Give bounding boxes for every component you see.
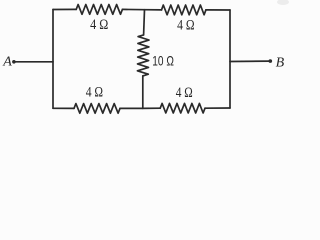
wire: top-right segment [206,9,230,11]
svg-text:B: B [276,55,285,70]
wire: right vertical branch [229,10,231,108]
svg-text:4 Ω: 4 Ω [90,17,108,33]
resistor R1 4ohm top-left zigzag [76,5,122,15]
wire: top-left segment [53,8,76,10]
svg-text:4 Ω: 4 Ω [176,85,193,101]
wire: left vertical branch [52,10,54,109]
wire: bottom-left segment [53,107,74,109]
wire: middle branch top stub [143,10,146,35]
wire: middle branch bottom stub [142,76,144,109]
scan smudge top-right [277,0,289,5]
wire: bottom-middle segment [120,107,160,109]
node B terminal dot [269,59,273,63]
wire: terminal A lead [15,61,54,63]
resistor R3 10ohm middle vertical zigzag [137,35,149,76]
node A terminal dot [12,60,16,64]
svg-text:4 Ω: 4 Ω [86,84,104,100]
resistor R5 4ohm bottom-right zigzag [160,103,205,113]
svg-text:4 Ω: 4 Ω [177,18,195,34]
svg-text:A: A [2,55,12,70]
wire: terminal B lead [230,60,270,62]
wire: bottom-right segment [205,107,230,109]
wire: top-middle segment [122,8,161,11]
resistor R2 4ohm top-right zigzag [162,5,206,15]
resistor R4 4ohm bottom-left zigzag [74,104,120,114]
svg-text:10 Ω: 10 Ω [152,52,174,68]
